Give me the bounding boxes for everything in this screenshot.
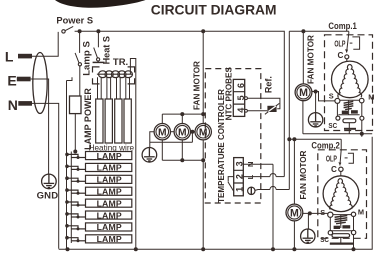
svg-text:SC: SC <box>328 121 337 130</box>
svg-text:L: L <box>5 48 14 64</box>
svg-text:LAMP: LAMP <box>97 210 122 220</box>
svg-text:M: M <box>199 127 208 138</box>
svg-text:M: M <box>158 127 167 138</box>
svg-text:3: 3 <box>234 161 244 166</box>
svg-text:LAMP: LAMP <box>97 163 122 173</box>
svg-text:E: E <box>7 72 16 88</box>
svg-text:OLP: OLP <box>326 154 337 164</box>
svg-text:5: 5 <box>236 95 246 100</box>
svg-text:GND: GND <box>37 191 59 202</box>
svg-text:Comp.2: Comp.2 <box>311 141 339 151</box>
svg-text:M: M <box>178 127 187 138</box>
svg-text:LAMP: LAMP <box>97 222 122 232</box>
svg-text:LAMP: LAMP <box>97 198 122 208</box>
svg-text:LAMP: LAMP <box>97 187 122 197</box>
svg-text:M: M <box>368 93 374 102</box>
svg-text:S: S <box>320 208 325 217</box>
svg-text:4: 4 <box>236 108 246 113</box>
svg-text:1: 1 <box>234 187 244 192</box>
svg-text:FAN MOTOR: FAN MOTOR <box>307 35 316 84</box>
svg-text:OLP: OLP <box>334 39 345 49</box>
svg-text:TR.: TR. <box>113 57 128 68</box>
svg-text:LAMP: LAMP <box>97 175 122 185</box>
svg-text:M: M <box>290 207 299 219</box>
svg-text:C: C <box>338 51 344 60</box>
svg-text:LAMP: LAMP <box>97 234 122 244</box>
svg-text:N: N <box>246 162 255 167</box>
svg-text:Heating wire: Heating wire <box>89 143 135 152</box>
svg-text:CIRCUIT DIAGRAM: CIRCUIT DIAGRAM <box>151 3 277 18</box>
svg-text:Comp.1: Comp.1 <box>328 21 356 31</box>
svg-text:M: M <box>299 87 308 99</box>
svg-text:FAN MOTOR: FAN MOTOR <box>192 61 201 110</box>
svg-text:FAN MOTOR: FAN MOTOR <box>299 150 308 199</box>
svg-text:M: M <box>358 207 364 216</box>
svg-text:6: 6 <box>236 83 246 88</box>
svg-text:SC: SC <box>320 235 329 244</box>
svg-text:2: 2 <box>234 174 244 179</box>
svg-text:LAMP POWER: LAMP POWER <box>83 88 93 150</box>
svg-text:Heat S: Heat S <box>101 36 111 64</box>
svg-text:Power S: Power S <box>56 16 93 26</box>
svg-text:Lamp S: Lamp S <box>82 41 93 76</box>
svg-text:L: L <box>246 174 255 179</box>
svg-text:Ref.: Ref. <box>264 76 274 93</box>
svg-text:S: S <box>329 91 334 100</box>
svg-text:NTC PROBES: NTC PROBES <box>224 67 233 121</box>
svg-text:C: C <box>331 165 337 174</box>
svg-text:N: N <box>8 97 18 113</box>
